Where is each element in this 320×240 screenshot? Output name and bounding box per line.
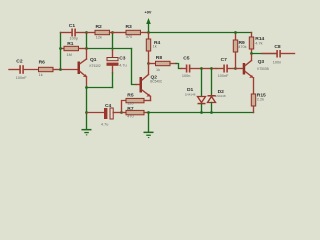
ground GND2 — [144, 132, 154, 139]
svg-text:2.2k: 2.2k — [257, 98, 264, 102]
diode D2 — [208, 69, 226, 113]
svg-text:100p: 100p — [70, 36, 78, 40]
capacitor C3 (electrolytic) — [107, 33, 127, 88]
node D1 bottom — [200, 111, 203, 114]
svg-text:120: 120 — [127, 102, 133, 106]
svg-text:470k: 470k — [238, 45, 246, 49]
resistor R4 — [146, 33, 160, 64]
wire Q2 base drop vertical — [132, 49, 137, 85]
svg-text:100nF: 100nF — [218, 74, 229, 78]
svg-text:R6: R6 — [39, 60, 46, 66]
svg-text:12k: 12k — [96, 36, 102, 40]
resistor R9 — [233, 33, 246, 69]
node +9V junction — [147, 31, 150, 34]
svg-text:1k: 1k — [39, 73, 43, 77]
node input junction (R6 / Q1 base / feedback) — [59, 68, 62, 71]
resistor R3 — [113, 24, 149, 39]
wire to ground 1 — [86, 113, 88, 129]
resistor R5 — [122, 92, 151, 112]
svg-text:C2: C2 — [16, 59, 23, 65]
node Q2 collector / R4 / R8 — [147, 62, 150, 65]
svg-text:R3: R3 — [126, 24, 133, 30]
transistor Q1 — [78, 33, 101, 88]
wire D2 to C7 — [212, 68, 217, 70]
resistor R2 — [87, 24, 113, 40]
node D2 bottom — [210, 111, 213, 114]
capacitor C2 — [9, 59, 39, 81]
diode D1 — [185, 69, 206, 113]
wire emitter to C3 bottom — [87, 87, 113, 89]
node Q3 base / R9 / C7 — [234, 67, 237, 70]
node A (C1 / R2 / Q1 collector) — [85, 31, 88, 34]
node emitter Q1 — [85, 86, 88, 89]
node ground rail junction — [147, 111, 150, 114]
svg-text:KT6102: KT6102 — [90, 64, 101, 68]
resistor R14 — [249, 33, 264, 54]
wire bottom rail — [149, 112, 254, 114]
resistor R6 — [39, 60, 61, 77]
svg-text:C4: C4 — [105, 103, 112, 109]
svg-text:Q1: Q1 — [90, 57, 97, 63]
node D1 top — [200, 67, 203, 70]
capacitor C1 — [61, 23, 87, 41]
resistor R7 — [122, 106, 149, 119]
resistor R8 — [149, 55, 177, 72]
wire to ground 2 — [148, 113, 150, 132]
node Q3 collector / C8 — [250, 52, 253, 55]
svg-text:R8: R8 — [156, 55, 163, 61]
capacitor C4 (electrolytic) — [87, 103, 122, 126]
svg-text:1M: 1M — [67, 53, 72, 57]
wire D1-D2 top — [202, 68, 212, 70]
svg-text:1N4148: 1N4148 — [215, 94, 226, 98]
wire collector row to Q2 base drop — [87, 48, 132, 50]
svg-text:KT503B: KT503B — [257, 67, 269, 71]
power +9V — [145, 11, 152, 33]
svg-text:4.7u: 4.7u — [101, 122, 108, 126]
svg-text:470: 470 — [126, 35, 132, 39]
wire top rail right — [149, 32, 252, 34]
node R2/R3 junction — [111, 31, 114, 34]
svg-text:R2: R2 — [96, 24, 103, 30]
resistor R15 — [251, 92, 266, 112]
transistor Q3 — [236, 54, 269, 95]
node C4 left — [85, 111, 88, 114]
node R9 top — [234, 31, 237, 34]
svg-text:Q3: Q3 — [258, 59, 265, 65]
svg-text:470: 470 — [127, 115, 133, 119]
svg-text:4.7k: 4.7k — [255, 42, 262, 46]
svg-text:100nF: 100nF — [16, 76, 27, 80]
resistor R1 — [61, 41, 87, 57]
svg-text:BC546C: BC546C — [150, 80, 163, 84]
capacitor C5 — [181, 56, 202, 79]
node R1 right / collector junction — [85, 47, 88, 50]
svg-text:R1: R1 — [67, 41, 74, 47]
svg-text:100n: 100n — [182, 74, 190, 78]
svg-text:C3: C3 — [119, 56, 126, 62]
svg-text:C5: C5 — [183, 56, 190, 62]
capacitor C7 — [216, 57, 236, 78]
svg-text:C7: C7 — [221, 57, 228, 63]
svg-text:1k: 1k — [156, 68, 160, 72]
transistor Q2 — [136, 64, 163, 101]
svg-text:1N4148: 1N4148 — [185, 92, 196, 96]
node C4 / R5 / R7 — [120, 111, 123, 114]
svg-text:C8: C8 — [274, 44, 281, 50]
node D2 top — [210, 67, 213, 70]
wire Q1 base — [61, 69, 78, 71]
ground GND1 — [82, 129, 92, 136]
wire R8 to C5 jog — [176, 64, 181, 69]
svg-text:R5: R5 — [127, 92, 134, 98]
node R1 left junction — [59, 47, 62, 50]
svg-text:C1: C1 — [69, 23, 76, 29]
svg-text:4.7u: 4.7u — [119, 64, 126, 68]
wire emitter down — [86, 88, 88, 113]
svg-text:R7: R7 — [127, 106, 134, 112]
wire feedback vertical — [60, 33, 62, 70]
svg-text:1k: 1k — [153, 45, 157, 49]
svg-text:+9V: +9V — [145, 11, 152, 15]
svg-text:100n: 100n — [273, 60, 281, 64]
capacitor C8 — [252, 44, 295, 64]
